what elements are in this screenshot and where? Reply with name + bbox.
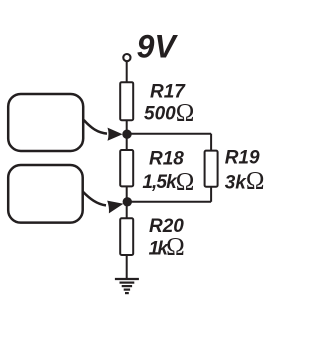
arrow 1 head bbox=[108, 128, 123, 141]
value 1,5k ohm bbox=[142, 168, 193, 195]
svg-text:1,5kΩ: 1,5kΩ bbox=[142, 168, 193, 195]
svg-text:9V: 9V bbox=[137, 29, 179, 65]
label 9V bbox=[137, 29, 179, 65]
resistor R18 bbox=[120, 150, 133, 186]
callout box 1 bbox=[8, 94, 83, 151]
label R17 bbox=[150, 82, 186, 103]
label R20 bbox=[149, 216, 184, 237]
wire R20 to ground bbox=[126, 255, 128, 279]
ground bbox=[115, 279, 139, 293]
arrow 2 head bbox=[107, 201, 123, 214]
value 500 ohm bbox=[144, 100, 194, 127]
svg-text:R19: R19 bbox=[225, 147, 260, 168]
svg-text:500Ω: 500Ω bbox=[144, 100, 194, 127]
wire R17 to node A bbox=[126, 120, 128, 134]
svg-text:R18: R18 bbox=[149, 149, 184, 170]
wire top from terminal to R17 bbox=[126, 62, 128, 84]
svg-text:3kΩ: 3kΩ bbox=[225, 167, 265, 194]
resistor R20 bbox=[120, 218, 133, 255]
wire node A to R19 branch top bbox=[127, 133, 211, 135]
wire R18 to node B bbox=[126, 186, 128, 202]
resistor R17 bbox=[120, 82, 133, 120]
node B junction dot bbox=[123, 197, 132, 206]
arrow 2 curve bbox=[83, 192, 106, 206]
node A junction dot bbox=[122, 130, 131, 139]
svg-text:1kΩ: 1kΩ bbox=[149, 234, 185, 261]
resistor R19 bbox=[205, 151, 218, 187]
value 3k ohm bbox=[225, 167, 265, 194]
power terminal circle bbox=[123, 54, 130, 61]
value 1k ohm bbox=[149, 234, 185, 261]
label R19 bbox=[225, 147, 260, 168]
wire R19 branch vertical bottom bbox=[210, 187, 212, 202]
callout box 2 bbox=[8, 165, 83, 223]
wire node B to R19 branch bottom bbox=[127, 201, 211, 203]
wire R19 branch vertical top bbox=[210, 134, 212, 151]
label R18 bbox=[149, 149, 184, 170]
arrow 1 curve bbox=[84, 120, 107, 134]
wire node A to R18 bbox=[126, 134, 128, 151]
wire node B to R20 bbox=[126, 202, 128, 219]
